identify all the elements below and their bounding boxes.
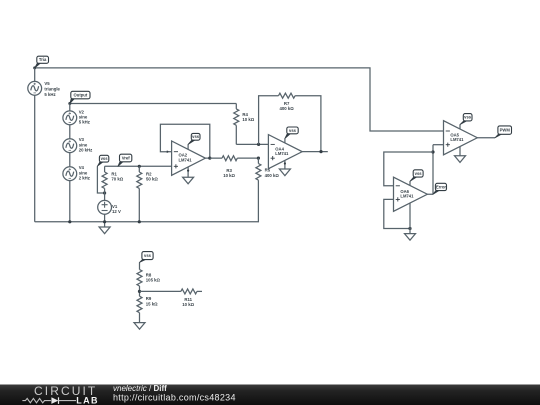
svg-text:12 V: 12 V xyxy=(112,209,121,214)
op-amp OA5 LM741 xyxy=(444,121,478,155)
label R11 10 kOhm xyxy=(182,297,194,307)
svg-text:vss: vss xyxy=(144,253,152,258)
wire V2 top lead xyxy=(69,104,71,111)
voltage source V3 (sine 20 kHz) xyxy=(63,139,77,153)
wire V5 top lead xyxy=(34,68,36,82)
wire OA4 output stub xyxy=(302,151,328,153)
svg-text:2 kHz: 2 kHz xyxy=(79,176,90,181)
junction OA2 output xyxy=(208,157,211,160)
flag vss (R8) xyxy=(140,252,154,263)
junction R7 left riser xyxy=(257,143,260,146)
wire OA5 V+ pin stub xyxy=(459,125,461,130)
wire OA6 output stub xyxy=(427,193,433,195)
svg-text:PWM: PWM xyxy=(500,128,511,133)
wire V4 bottom lead xyxy=(69,181,71,222)
svg-text:105 kΩ: 105 kΩ xyxy=(146,278,161,283)
wire OA2 V+ pin stub xyxy=(187,144,189,149)
flag PWM xyxy=(495,126,512,138)
node Tria junction xyxy=(33,66,36,69)
resistor R3 xyxy=(210,156,259,161)
flag vss (OA4) xyxy=(285,127,298,138)
wire OA2 feedback loop xyxy=(160,124,209,158)
svg-text:400 kΩ: 400 kΩ xyxy=(265,173,280,178)
label R8 105 kOhm xyxy=(146,272,161,282)
wire net Output (to R4) xyxy=(70,103,237,105)
wire OA4 V+ pin stub xyxy=(284,138,286,143)
label V1 12 V xyxy=(112,204,121,214)
wire R7 right riser xyxy=(295,96,321,152)
junction OA4 noninverting node xyxy=(257,157,260,160)
flag vss (V1 node) xyxy=(97,155,108,166)
label R9 15 kOhm xyxy=(146,296,158,306)
svg-text:5 kHz: 5 kHz xyxy=(44,92,55,97)
label V5 xyxy=(44,81,60,97)
wire V2-V3 xyxy=(69,125,71,139)
flag vss (OA6) xyxy=(410,170,423,182)
label V2 xyxy=(79,109,90,124)
wire OA6 V- pin stub to ground xyxy=(409,203,411,234)
svg-text:50 kΩ: 50 kΩ xyxy=(146,177,158,182)
label R1 70 kOhm xyxy=(111,171,123,181)
ground under OA6 xyxy=(405,234,416,241)
junction Error net xyxy=(431,150,434,153)
svg-text:vss: vss xyxy=(101,156,109,161)
svg-text:10 kΩ: 10 kΩ xyxy=(223,173,235,178)
wire OA6 feedback loop (minus) xyxy=(384,152,433,186)
resistor R1 xyxy=(102,166,107,193)
junction R1/V1/vss node xyxy=(103,191,106,194)
label V4 xyxy=(79,165,90,180)
resistor R4 xyxy=(234,104,239,145)
label R5 400 kOhm xyxy=(265,168,280,178)
resistor R2 xyxy=(137,166,142,222)
footer url xyxy=(113,393,236,403)
ground under R9 xyxy=(134,323,145,330)
flag vss (OA5) xyxy=(460,114,472,125)
CircuitLab logo text LAB xyxy=(76,395,99,405)
svg-text:vss: vss xyxy=(415,171,423,176)
wire net Error vertical xyxy=(432,145,434,195)
wire OA5 noninverting input xyxy=(433,144,444,146)
svg-text:vss: vss xyxy=(464,115,472,120)
label R2 50 kOhm xyxy=(146,171,158,181)
svg-text:Tria: Tria xyxy=(39,57,47,62)
wire R7 left riser xyxy=(259,96,279,145)
svg-text:10 kΩ: 10 kΩ xyxy=(182,302,194,307)
flag Vref xyxy=(118,154,132,166)
svg-text:20 kHz: 20 kHz xyxy=(79,148,93,153)
svg-text:400 kΩ: 400 kΩ xyxy=(279,106,294,111)
svg-text:R9: R9 xyxy=(146,296,152,301)
junction R2-rail xyxy=(138,220,141,223)
wire V1 bottom lead xyxy=(104,214,106,227)
resistor R5 xyxy=(256,158,261,180)
junction V1-rail xyxy=(103,220,106,223)
resistor R11 xyxy=(181,289,202,294)
resistor R7 xyxy=(279,93,296,98)
voltage source V2 (sine 5 kHz) xyxy=(63,111,77,125)
junction R8/R9/R11 xyxy=(138,290,141,293)
svg-text:Vref: Vref xyxy=(122,155,131,160)
svg-text:5 kHz: 5 kHz xyxy=(79,120,90,125)
wire V1 top lead xyxy=(104,193,106,200)
wire bottom rail xyxy=(35,180,259,222)
wire OA4 V- pin stub xyxy=(284,160,286,169)
op-amp OA2 LM741 xyxy=(172,141,206,175)
node Output junction xyxy=(68,102,71,105)
label R7 400 kOhm xyxy=(279,101,294,111)
flag vss (OA2) xyxy=(188,133,200,144)
CircuitLab logo resistor-diode glyph xyxy=(22,397,76,404)
svg-text:LM741: LM741 xyxy=(275,151,289,156)
svg-text:15 kΩ: 15 kΩ xyxy=(146,302,158,307)
flag Error xyxy=(433,183,447,194)
wire R4 to OA4 inverting input xyxy=(236,143,268,145)
footer title vnelectric / Diff xyxy=(113,384,167,393)
footer bar xyxy=(0,385,540,405)
voltage source V1 (12 V) xyxy=(98,200,112,214)
svg-text:Output: Output xyxy=(74,92,88,97)
wire V5 bottom lead to ground rail xyxy=(34,95,36,222)
ground under OA5 xyxy=(455,156,466,163)
label R4 10 kOhm xyxy=(242,112,254,122)
voltage source V4 (sine 2 kHz) xyxy=(63,167,77,181)
wire OA5 output xyxy=(477,137,495,139)
wire V3-V4 xyxy=(69,153,71,167)
wire OA6 noninverting ground loop xyxy=(384,199,410,228)
label R3 10 kOhm xyxy=(223,168,235,178)
label V3 xyxy=(79,137,93,152)
wire vss to R8 xyxy=(139,262,141,269)
svg-text:10 kΩ: 10 kΩ xyxy=(242,117,254,122)
wire R8 node to R11 xyxy=(140,290,181,292)
wire OA2 V- pin stub xyxy=(187,167,189,177)
CircuitLab logo text CIRCUIT xyxy=(34,384,97,398)
svg-text:LM741: LM741 xyxy=(450,137,464,142)
ground under OA4 xyxy=(279,169,290,176)
svg-text:vnelectric / Diff: vnelectric / Diff xyxy=(113,384,167,393)
svg-text:vss: vss xyxy=(289,128,297,133)
wire net Vref xyxy=(105,165,172,167)
ground under OA2 xyxy=(183,177,194,184)
wire OA5 V- pin stub xyxy=(459,147,461,156)
svg-text:http://circuitlab.com/cs48234: http://circuitlab.com/cs48234 xyxy=(113,393,236,403)
svg-text:LM741: LM741 xyxy=(179,158,193,163)
svg-text:triangle: triangle xyxy=(44,87,60,92)
op-amp OA6 LM741 xyxy=(394,177,428,211)
ground under V1 xyxy=(99,227,110,234)
flag Output xyxy=(70,91,90,103)
svg-text:70 kΩ: 70 kΩ xyxy=(111,177,123,182)
svg-text:LAB: LAB xyxy=(76,395,99,405)
wire OA6 V+ pin stub xyxy=(409,181,411,185)
junction OA4 output xyxy=(319,150,322,153)
flag Tria xyxy=(35,56,49,68)
wire OA2 inverting stub xyxy=(166,151,171,153)
svg-text:V5: V5 xyxy=(44,81,50,86)
wire vss stub to V1+ node xyxy=(97,166,104,193)
junction OA6 gnd loop xyxy=(408,227,411,230)
junction V4-rail xyxy=(68,220,71,223)
op-amp OA4 LM741 xyxy=(268,135,302,169)
svg-text:vss: vss xyxy=(192,134,200,139)
resistor R9 xyxy=(137,296,142,322)
svg-text:Error: Error xyxy=(436,184,447,189)
svg-text:LM741: LM741 xyxy=(400,194,414,199)
junction R2 top xyxy=(138,165,141,168)
wire net Tria (top rail to OA5 inverting input) xyxy=(35,68,444,131)
resistor R8 xyxy=(137,270,142,297)
voltage source V5 (triangle 5 kHz) xyxy=(28,81,42,95)
